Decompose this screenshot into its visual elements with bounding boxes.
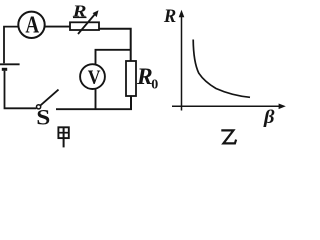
- svg-text:R: R: [136, 64, 153, 90]
- wire (battery to bottom rail): [5, 71, 37, 109]
- label 甲 (figure A): [58, 127, 68, 147]
- voltmeter branch wire (top, to right branch): [96, 50, 132, 65]
- rheostat R (rect with diagonal arrow): [70, 10, 99, 34]
- switch S: [37, 90, 59, 109]
- wire (R0 bottom to bottom rail): [130, 96, 132, 110]
- battery (clipped at left edge): long plate: [0, 63, 20, 65]
- voltmeter branch wire (bottom): [95, 89, 97, 110]
- ammeter A: [18, 10, 44, 38]
- svg-text:0: 0: [151, 78, 158, 93]
- label R0: [136, 64, 158, 93]
- label 乙 (figure B): [221, 130, 236, 143]
- voltmeter V: [80, 64, 105, 89]
- curve R vs beta: [193, 40, 250, 98]
- resistor R0: [126, 61, 136, 96]
- svg-text:A: A: [25, 10, 39, 38]
- wire bottom rail right segment: [56, 108, 132, 110]
- battery short thick plate: [2, 68, 7, 71]
- svg-text:R: R: [72, 2, 87, 21]
- svg-text:V: V: [88, 67, 101, 90]
- svg-text:β: β: [263, 107, 275, 128]
- x axis (beta) with arrow: [172, 104, 286, 110]
- svg-text:S: S: [36, 106, 50, 130]
- svg-text:R: R: [163, 7, 176, 27]
- wire top-left (battery to ammeter): [4, 27, 18, 64]
- label R (rheostat) with underline: [72, 2, 87, 21]
- y axis (R) with arrow: [179, 10, 185, 111]
- wire (rheostat to right branch, corner down): [99, 29, 131, 61]
- wire (ammeter to rheostat): [45, 26, 70, 28]
